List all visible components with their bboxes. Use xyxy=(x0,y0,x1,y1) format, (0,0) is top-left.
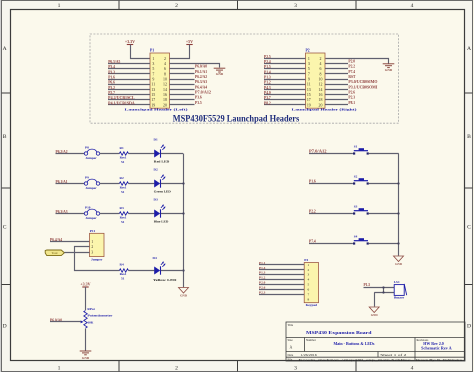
svg-text:10: 10 xyxy=(163,78,167,82)
svg-text:6: 6 xyxy=(307,288,309,292)
svg-text:P1.5: P1.5 xyxy=(364,283,371,287)
svg-text:P6.1/A1: P6.1/A1 xyxy=(195,70,207,74)
svg-text:P4.3: P4.3 xyxy=(264,86,271,90)
svg-text:51: 51 xyxy=(121,160,125,164)
svg-text:D1: D1 xyxy=(154,138,158,142)
svg-text:P6.5/A5: P6.5/A5 xyxy=(108,60,120,64)
wire LED D3 to ground bus xyxy=(161,213,183,215)
push button S2 xyxy=(353,174,369,184)
svg-text:14: 14 xyxy=(319,88,323,92)
svg-text:File: File xyxy=(288,358,293,362)
title block xyxy=(286,322,465,361)
junction xyxy=(382,286,384,288)
svg-text:RST: RST xyxy=(348,75,356,79)
svg-text:GND: GND xyxy=(395,262,403,266)
svg-text:Launchpad Header (Right): Launchpad Header (Right) xyxy=(292,107,357,111)
connector P2 Launchpad Header (Right) xyxy=(292,49,357,112)
svg-text:P8: P8 xyxy=(85,145,89,149)
connector P4 Keypad xyxy=(304,258,318,307)
svg-text:P1.3: P1.3 xyxy=(259,271,266,275)
svg-text:3: 3 xyxy=(152,62,154,66)
svg-text:P7.0/A12: P7.0/A12 xyxy=(195,90,211,94)
wire P1 pin 8 xyxy=(170,73,195,75)
svg-text:Res1: Res1 xyxy=(120,185,127,189)
svg-text:18: 18 xyxy=(319,98,323,102)
svg-text:P6.2/A2: P6.2/A2 xyxy=(195,75,207,79)
junction xyxy=(397,242,399,244)
svg-text:2: 2 xyxy=(175,366,178,372)
junction xyxy=(182,182,184,184)
svg-text:R4: R4 xyxy=(120,263,124,267)
svg-text:P3.4: P3.4 xyxy=(108,65,115,69)
wire resistor R4 to LED D4 xyxy=(128,270,154,272)
wire P2 pin 9 xyxy=(264,79,306,81)
svg-text:+5V: +5V xyxy=(186,39,193,44)
svg-text:3: 3 xyxy=(294,3,297,9)
wire keypad pin 5 xyxy=(259,284,304,286)
svg-text:P1.4: P1.4 xyxy=(264,70,271,74)
wire P1 pin 13 xyxy=(108,89,150,91)
svg-text:Sheet 1 of 2: Sheet 1 of 2 xyxy=(380,353,406,357)
svg-text:+3.3V: +3.3V xyxy=(80,281,90,286)
svg-text:5: 5 xyxy=(152,67,154,71)
svg-text:4: 4 xyxy=(307,278,309,282)
port Tout xyxy=(45,250,64,256)
svg-text:P1.2: P1.2 xyxy=(259,276,266,280)
svg-text:P6.3/A3: P6.3/A3 xyxy=(195,80,207,84)
svg-text:GND: GND xyxy=(82,356,90,360)
svg-text:1: 1 xyxy=(307,263,309,267)
wire P2 pin 16 xyxy=(325,94,348,96)
svg-text:5: 5 xyxy=(307,283,309,287)
svg-text:12: 12 xyxy=(163,83,167,87)
svg-text:16: 16 xyxy=(163,93,167,97)
svg-text:8: 8 xyxy=(164,72,166,76)
wire button S1 to ground bus xyxy=(369,153,399,155)
svg-text:P2.0: P2.0 xyxy=(259,281,266,285)
svg-text:+3.3V: +3.3V xyxy=(125,39,135,44)
svg-text:Title: Title xyxy=(288,323,294,327)
svg-text:Schematic Rev A: Schematic Rev A xyxy=(421,347,452,351)
jumper P9 xyxy=(84,175,99,190)
svg-text:P1.1: P1.1 xyxy=(259,261,266,265)
svg-text:1: 1 xyxy=(308,57,310,61)
svg-text:C: C xyxy=(3,225,7,231)
wire P2 pin 6 xyxy=(325,68,348,70)
svg-text:P1: P1 xyxy=(150,49,154,53)
resistor R2 Res1 51 xyxy=(119,176,128,194)
svg-text:GND: GND xyxy=(180,294,188,298)
svg-text:GND: GND xyxy=(385,68,393,72)
svg-text:P3.5: P3.5 xyxy=(195,101,202,105)
svg-text:4: 4 xyxy=(164,62,166,66)
svg-text:Launchpad Header (Left): Launchpad Header (Left) xyxy=(125,107,188,111)
svg-text:Jumper: Jumper xyxy=(85,186,97,190)
push button S1 xyxy=(353,144,369,154)
svg-text:RPot: RPot xyxy=(87,307,95,311)
svg-text:14: 14 xyxy=(163,88,167,92)
ground GND (left header) xyxy=(214,68,226,72)
svg-text:51: 51 xyxy=(121,220,125,224)
potentiometer RPot 10K xyxy=(81,307,113,328)
svg-text:K:\win_msdrive\..\msp430_exp_m: K:\win_msdrive\..\msp430_exp_main.SchDoc xyxy=(298,358,411,362)
wire button ground bus xyxy=(398,154,400,256)
wire jumper to resistor R1 xyxy=(100,153,120,155)
svg-text:1: 1 xyxy=(58,366,61,372)
svg-text:2: 2 xyxy=(91,245,93,249)
svg-text:P4: P4 xyxy=(304,258,308,262)
resistor R1 Res1 51 xyxy=(119,146,128,164)
svg-text:Jumper: Jumper xyxy=(85,156,97,160)
svg-text:7: 7 xyxy=(307,293,309,297)
svg-text:P6.4/A4: P6.4/A4 xyxy=(195,85,207,89)
svg-text:Main - Buttons & LEDs: Main - Buttons & LEDs xyxy=(334,341,375,346)
LED D1 Red LED xyxy=(154,138,171,164)
svg-text:15: 15 xyxy=(151,93,155,97)
svg-text:C: C xyxy=(467,225,471,231)
svg-text:P3.7: P3.7 xyxy=(264,96,271,100)
jumper P8 xyxy=(84,145,99,160)
svg-text:P3.6: P3.6 xyxy=(195,96,202,100)
svg-text:P3.3: P3.3 xyxy=(108,70,115,74)
wire P2 pin 1 xyxy=(264,58,306,60)
svg-text:P3.0/UCB0SIMO: P3.0/UCB0SIMO xyxy=(348,80,377,84)
wire P2 pin 12 xyxy=(325,84,348,86)
svg-text:Size: Size xyxy=(288,338,294,342)
LED D3 Blue LED xyxy=(154,198,169,224)
push button S3 xyxy=(353,204,369,214)
wire P7.4 to button S4 xyxy=(309,243,353,245)
wire P2 pin 7 xyxy=(264,73,306,75)
wire P2 pin 3 xyxy=(264,63,306,65)
wire jumper to resistor R2 xyxy=(100,183,120,185)
svg-text:P6.6: P6.6 xyxy=(108,81,115,85)
wire P1 pin 10 xyxy=(170,79,195,81)
svg-text:P2: P2 xyxy=(306,49,310,53)
svg-text:9: 9 xyxy=(152,78,154,82)
svg-text:13: 13 xyxy=(151,88,155,92)
wire resistor to LED D2 xyxy=(128,183,154,185)
svg-text:B: B xyxy=(3,134,7,140)
resistor R4 Res1 51 xyxy=(119,263,128,281)
wire P6.2/A2 to jumper P8 xyxy=(56,153,85,155)
resistor R3 Res1 51 xyxy=(119,206,128,224)
svg-text:D4: D4 xyxy=(153,256,157,260)
svg-text:18: 18 xyxy=(163,98,167,102)
wire P1 pin 9 xyxy=(108,79,150,81)
wire P2 pin 10 xyxy=(325,79,348,81)
wire P1 pin 17 xyxy=(108,99,150,101)
wire +3.3V to P1 pin1 xyxy=(131,45,151,59)
wire P1 pin4 to GND xyxy=(170,64,220,68)
svg-text:S2: S2 xyxy=(354,174,358,178)
svg-text:P1.2: P1.2 xyxy=(264,81,271,85)
svg-text:3: 3 xyxy=(307,273,309,277)
wire resistor to LED D1 xyxy=(128,153,154,155)
svg-text:2: 2 xyxy=(320,57,322,61)
svg-text:3: 3 xyxy=(308,62,310,66)
ground GND (LED bus) xyxy=(179,288,189,294)
wire P2 pin 17 xyxy=(264,99,306,101)
svg-text:6: 6 xyxy=(320,67,322,71)
svg-text:4: 4 xyxy=(411,366,414,372)
wire LED D1 to ground bus xyxy=(161,153,183,155)
connector P11 Jumper (3-pin) xyxy=(90,229,105,261)
svg-text:P10: P10 xyxy=(85,205,91,209)
wire P2 pin2 to GND xyxy=(326,59,389,64)
svg-text:P2.0: P2.0 xyxy=(348,60,355,64)
svg-text:P4.2/UCB1SCL: P4.2/UCB1SCL xyxy=(108,96,135,100)
junction xyxy=(397,212,399,214)
wire potentiometer to GND xyxy=(85,329,87,351)
wire P2 pin 4 xyxy=(325,63,348,65)
svg-text:4: 4 xyxy=(411,3,414,9)
svg-text:P6.0/A0: P6.0/A0 xyxy=(195,65,207,69)
svg-text:P4.1/UCB1SDA: P4.1/UCB1SDA xyxy=(108,101,135,105)
svg-text:D2: D2 xyxy=(154,168,158,172)
svg-text:3: 3 xyxy=(294,366,297,372)
svg-text:P1.6: P1.6 xyxy=(108,76,115,80)
svg-text:Res1: Res1 xyxy=(120,272,127,276)
svg-text:Drawn By: N. DaSilveira: Drawn By: N. DaSilveira xyxy=(416,358,463,362)
wire P6.0/A0 to wiper xyxy=(50,321,81,323)
svg-text:Jumper: Jumper xyxy=(85,216,97,220)
svg-text:Res1: Res1 xyxy=(120,155,127,159)
svg-text:P2.2: P2.2 xyxy=(348,65,355,69)
svg-text:8: 8 xyxy=(307,297,309,301)
wire P2 pin 8 xyxy=(325,73,348,75)
wire P1 pin 3 xyxy=(108,63,150,65)
wire P2 pin 15 xyxy=(264,94,306,96)
svg-text:P3.2: P3.2 xyxy=(108,86,115,90)
wire P2 pin 13 xyxy=(264,89,306,91)
wire keypad pin 4 xyxy=(259,279,304,281)
wire P6.1/A1 to jumper P9 xyxy=(56,183,85,185)
svg-text:P7.0/A12: P7.0/A12 xyxy=(309,149,327,153)
jumper P10 xyxy=(84,205,99,220)
svg-text:Date: Date xyxy=(288,353,294,357)
svg-text:R2: R2 xyxy=(120,176,124,180)
wire P2 pin 11 xyxy=(264,84,306,86)
section box: MSP430F5529 Launchpad Headers xyxy=(90,34,399,123)
svg-text:S3: S3 xyxy=(354,204,358,208)
svg-text:1: 1 xyxy=(58,3,61,9)
junction xyxy=(182,212,184,214)
svg-text:A: A xyxy=(3,46,7,52)
svg-text:P8.1: P8.1 xyxy=(348,101,355,105)
wire P1 pin 7 xyxy=(108,73,150,75)
wire P2 pin 5 xyxy=(264,68,306,70)
svg-text:Res1: Res1 xyxy=(120,215,127,219)
buzzer LS1 xyxy=(394,280,407,300)
svg-text:4: 4 xyxy=(320,62,322,66)
svg-text:P2.7: P2.7 xyxy=(108,91,115,95)
svg-text:15: 15 xyxy=(307,93,311,97)
junction xyxy=(182,269,184,271)
wire keypad pin 1 xyxy=(259,264,304,266)
svg-text:Potentiometer: Potentiometer xyxy=(87,314,113,318)
wire P2 pin 14 xyxy=(325,89,348,91)
wire buzzer pin2 to GND leg xyxy=(374,292,394,294)
svg-text:11: 11 xyxy=(307,83,311,87)
svg-text:S1: S1 xyxy=(354,144,358,148)
svg-text:P2.2: P2.2 xyxy=(309,209,316,213)
connector P1 Launchpad Header (Left) xyxy=(125,49,188,112)
wire P1 pin 20 xyxy=(170,104,195,106)
svg-text:Jumper: Jumper xyxy=(91,257,103,261)
svg-text:8: 8 xyxy=(320,72,322,76)
svg-text:P2.6: P2.6 xyxy=(348,90,355,94)
svg-text:2: 2 xyxy=(307,268,309,272)
svg-text:17: 17 xyxy=(151,98,155,102)
svg-text:P3.1/UCB0SOMI: P3.1/UCB0SOMI xyxy=(348,85,378,89)
svg-text:P11: P11 xyxy=(90,229,96,233)
ground GND (potentiometer) xyxy=(80,351,92,355)
wire P1 pin 15 xyxy=(108,94,150,96)
svg-text:1: 1 xyxy=(91,240,93,244)
svg-text:P7.4: P7.4 xyxy=(348,70,355,74)
wire P1 pin 18 xyxy=(170,99,195,101)
svg-text:HW Rev 2.0: HW Rev 2.0 xyxy=(423,342,444,346)
svg-text:P2.4: P2.4 xyxy=(264,60,271,64)
svg-text:12: 12 xyxy=(319,83,323,87)
svg-text:51: 51 xyxy=(121,276,125,280)
wire P1 pin 12 xyxy=(170,84,195,86)
svg-text:MSP430F5529 Launchpad Headers: MSP430F5529 Launchpad Headers xyxy=(173,113,300,123)
svg-text:Buzzer: Buzzer xyxy=(394,296,405,300)
svg-text:GND: GND xyxy=(371,313,379,317)
wire P1.5 to buzzer LS1 pin1 xyxy=(364,287,395,289)
svg-text:5: 5 xyxy=(308,67,310,71)
ground GND (buzzer) xyxy=(369,307,379,313)
svg-text:1/26/2016: 1/26/2016 xyxy=(301,353,318,357)
svg-text:D: D xyxy=(3,324,7,330)
svg-text:11: 11 xyxy=(151,83,155,87)
svg-text:10: 10 xyxy=(319,78,323,82)
svg-text:P1.6: P1.6 xyxy=(309,179,316,183)
svg-text:7: 7 xyxy=(152,72,154,76)
wire P1 pin 5 xyxy=(108,68,150,70)
svg-text:P1.5: P1.5 xyxy=(264,65,271,69)
svg-text:A: A xyxy=(290,345,293,349)
wire P6.4/A4 to jumper P11 pin1 xyxy=(50,241,90,243)
wire P1 pin 16 xyxy=(170,94,195,96)
wire P1 pin 6 xyxy=(170,68,195,70)
svg-text:A: A xyxy=(467,46,471,52)
svg-text:LS1: LS1 xyxy=(394,280,400,284)
svg-text:P2.5: P2.5 xyxy=(264,55,271,59)
svg-text:Number: Number xyxy=(306,338,316,342)
wire +3.3V to potentiometer xyxy=(85,287,87,310)
junction xyxy=(397,182,399,184)
wire buzzer to GND xyxy=(374,293,376,307)
svg-text:Red LED: Red LED xyxy=(154,160,170,164)
wire P2 pin 18 xyxy=(325,99,348,101)
ground GND (right header) xyxy=(383,64,395,68)
svg-text:10K: 10K xyxy=(87,320,93,324)
svg-text:P2.6: P2.6 xyxy=(259,286,266,290)
svg-text:13: 13 xyxy=(307,88,311,92)
wire Tout to jumper P11 pin3 xyxy=(64,252,89,254)
svg-text:3: 3 xyxy=(91,250,93,254)
svg-text:Blue LED: Blue LED xyxy=(154,220,169,224)
svg-text:1: 1 xyxy=(152,57,154,61)
wire button S3 to ground bus xyxy=(369,213,399,215)
wire P1 pin 19 xyxy=(108,104,150,106)
svg-text:Tout: Tout xyxy=(52,251,58,255)
svg-text:S4: S4 xyxy=(354,234,358,238)
ground GND (button bus) xyxy=(394,256,404,262)
svg-text:P8.2: P8.2 xyxy=(264,101,271,105)
wire P2 pin 20 xyxy=(325,104,348,106)
svg-text:GND: GND xyxy=(216,72,224,76)
svg-text:16: 16 xyxy=(319,93,323,97)
svg-text:D: D xyxy=(467,324,471,330)
wire keypad pin 2 xyxy=(259,269,304,271)
svg-text:P9: P9 xyxy=(85,175,89,179)
LED D2 Green LED xyxy=(154,168,172,194)
wire P1.6 to button S2 xyxy=(309,183,353,185)
svg-text:R1: R1 xyxy=(120,146,124,150)
svg-text:17: 17 xyxy=(307,98,311,102)
LED D4 Yellow LED xyxy=(153,256,178,282)
svg-text:P1.3: P1.3 xyxy=(264,76,271,80)
wire keypad pin 7 xyxy=(259,294,304,296)
svg-text:51: 51 xyxy=(121,190,125,194)
wire P1 pin 14 xyxy=(170,89,195,91)
svg-text:Keypad: Keypad xyxy=(306,303,317,307)
wire LED D2 to ground bus xyxy=(161,183,183,185)
push button S4 xyxy=(353,234,369,244)
wire button S2 to ground bus xyxy=(369,183,399,185)
svg-text:P1.4: P1.4 xyxy=(259,266,266,270)
wire jumper P11 pin2 to resistor R4 xyxy=(75,247,120,271)
svg-text:6: 6 xyxy=(164,67,166,71)
svg-text:P4.0: P4.0 xyxy=(264,91,271,95)
wire LED D4 to ground bus xyxy=(161,270,183,272)
wire resistor to LED D3 xyxy=(128,213,154,215)
wire keypad pin 6 xyxy=(259,289,304,291)
svg-text:Green LED: Green LED xyxy=(154,190,172,194)
wire keypad pin 3 xyxy=(259,274,304,276)
svg-text:MSP430 Expansion Board: MSP430 Expansion Board xyxy=(306,330,372,335)
wire button S4 to ground bus xyxy=(369,243,399,245)
svg-text:7: 7 xyxy=(308,72,310,76)
svg-text:P7.4: P7.4 xyxy=(309,239,316,243)
wire P7.0/A12 to button S1 xyxy=(309,153,353,155)
svg-text:B: B xyxy=(467,134,471,140)
wire P2.2 to button S3 xyxy=(309,213,353,215)
wire P1 pin 11 xyxy=(108,84,150,86)
svg-text:2: 2 xyxy=(164,57,166,61)
wire +5V to P1 pin2 xyxy=(170,45,190,59)
svg-text:D3: D3 xyxy=(154,198,158,202)
junction xyxy=(382,291,384,293)
wire jumper to resistor R3 xyxy=(100,213,120,215)
svg-text:9: 9 xyxy=(308,78,310,82)
svg-text:Yellow LED: Yellow LED xyxy=(153,278,177,282)
wire LED ground bus xyxy=(183,154,185,288)
wire junction link xyxy=(383,288,385,293)
wire P2 pin 19 xyxy=(264,104,306,106)
svg-text:P2.3: P2.3 xyxy=(259,291,266,295)
svg-text:2: 2 xyxy=(175,3,178,9)
svg-text:P2.3: P2.3 xyxy=(348,96,355,100)
svg-text:R3: R3 xyxy=(120,206,124,210)
wire P6.3/A3 to jumper P10 xyxy=(56,213,85,215)
